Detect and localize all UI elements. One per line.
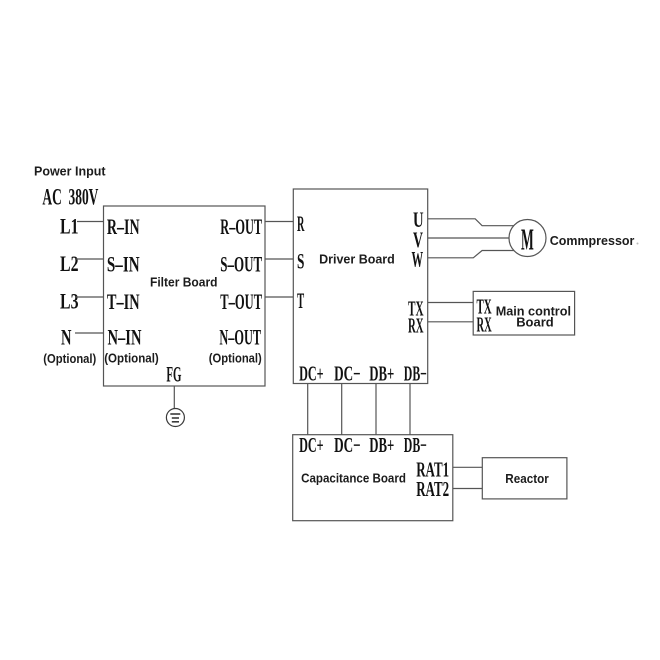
- svg-text:T–IN: T–IN: [107, 289, 140, 314]
- wire N to filter: [75, 332, 104, 334]
- wire DB+ bus: [375, 384, 377, 435]
- wire RAT2 to reactor: [453, 488, 483, 490]
- wire L1 to filter: [77, 221, 104, 223]
- svg-text:DC−: DC−: [334, 433, 361, 457]
- wire FG to ground: [173, 386, 175, 409]
- wire S filter to driver: [265, 258, 293, 260]
- main control board U3 box: [473, 291, 574, 336]
- svg-text:N–IN: N–IN: [108, 325, 142, 350]
- wire U to motor: [428, 219, 514, 226]
- wire DC+ bus: [307, 384, 309, 435]
- svg-text:N: N: [61, 325, 72, 350]
- svg-text:Board: Board: [516, 315, 554, 330]
- ground symbol: [166, 409, 184, 427]
- svg-text:L2: L2: [60, 251, 79, 276]
- filter board U1 box: [104, 206, 266, 386]
- svg-text:T–OUT: T–OUT: [220, 289, 262, 314]
- svg-text:Capacitance Board: Capacitance Board: [301, 470, 406, 485]
- driver board U2 box: [293, 189, 427, 384]
- period after Commpressor: [637, 243, 639, 245]
- wire TX to main control: [428, 302, 474, 304]
- svg-text:R–IN: R–IN: [107, 214, 140, 239]
- svg-text:DC+: DC+: [299, 361, 324, 385]
- svg-text:Commpressor: Commpressor: [550, 233, 635, 248]
- wire T filter to driver: [265, 296, 293, 298]
- svg-text:T: T: [297, 288, 304, 313]
- svg-text:DC+: DC+: [299, 433, 324, 457]
- svg-text:DB+: DB+: [369, 361, 394, 385]
- svg-text:RAT2: RAT2: [416, 477, 449, 501]
- svg-text:S: S: [297, 249, 304, 274]
- svg-text:(Optional): (Optional): [104, 351, 159, 366]
- svg-text:S–IN: S–IN: [107, 251, 140, 276]
- wire L2 to filter: [75, 258, 104, 260]
- wire DC- bus: [341, 384, 343, 435]
- svg-text:N–OUT: N–OUT: [219, 325, 261, 350]
- svg-text:DB−: DB−: [404, 361, 427, 385]
- wire W to motor: [428, 251, 514, 258]
- wire L3 to filter: [75, 296, 104, 298]
- svg-text:S–OUT: S–OUT: [220, 251, 262, 276]
- wire DB- bus: [409, 384, 411, 435]
- svg-text:RX: RX: [408, 314, 424, 338]
- svg-text:DC−: DC−: [334, 361, 361, 385]
- svg-text:R: R: [297, 211, 305, 236]
- svg-text:Driver Board: Driver Board: [319, 251, 395, 266]
- wire RX to main control: [428, 321, 474, 323]
- svg-text:FG: FG: [166, 362, 181, 387]
- svg-text:AC 380V: AC 380V: [42, 184, 98, 209]
- svg-text:L3: L3: [60, 289, 79, 314]
- svg-text:DB+: DB+: [369, 433, 394, 457]
- svg-text:Power Input: Power Input: [34, 163, 106, 178]
- svg-text:DB−: DB−: [404, 433, 427, 457]
- wire V to motor: [428, 237, 509, 239]
- svg-text:(Optional): (Optional): [43, 351, 96, 366]
- svg-text:M: M: [521, 222, 534, 257]
- svg-text:W: W: [412, 247, 424, 272]
- capacitance board U4 box: [293, 433, 453, 521]
- svg-text:L1: L1: [60, 214, 79, 239]
- reactor L1 box: [482, 458, 567, 499]
- wire RAT1 to reactor: [453, 466, 483, 468]
- svg-text:RX: RX: [477, 312, 492, 336]
- svg-text:R–OUT: R–OUT: [220, 214, 262, 239]
- svg-text:Filter Board: Filter Board: [150, 275, 218, 290]
- svg-text:Reactor: Reactor: [505, 471, 549, 486]
- wire R filter to driver: [265, 221, 293, 223]
- svg-text:(Optional): (Optional): [209, 351, 262, 366]
- motor M1 circle: [509, 220, 546, 257]
